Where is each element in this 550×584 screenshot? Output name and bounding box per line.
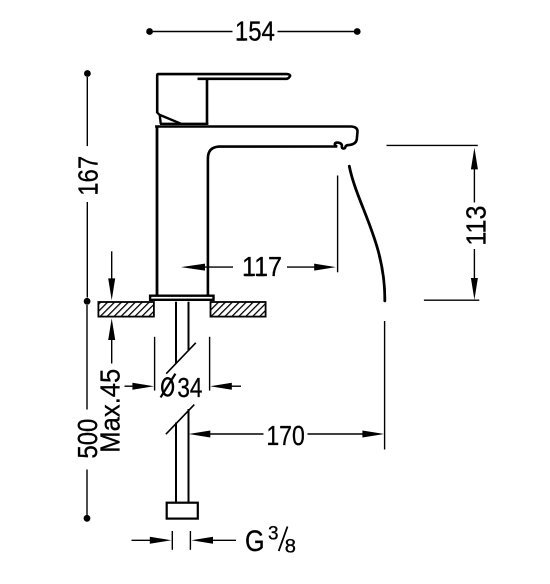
svg-text:170: 170	[266, 420, 305, 451]
label O34 diameter circle	[162, 378, 173, 395]
label 113 foot serifs of digits 1 (rotated)	[484, 222, 486, 230]
faucet body left edge	[156, 126, 159, 295]
dim O34 right arrow (left-pointing)	[210, 383, 232, 390]
label 170 foot serif of digit 1	[269, 443, 277, 445]
dim 117 left arrow (left-pointing at body axis)	[181, 264, 205, 271]
node dim154 dot-left	[146, 28, 153, 35]
dim Max.45 lower leader line	[111, 340, 113, 364]
dim G38 left leader	[132, 539, 151, 541]
dim 117 right arrow (right-pointing)	[314, 264, 336, 271]
label 167 foot serif of digit 1 (rotated)	[96, 184, 98, 192]
supply pipe right edge	[188, 302, 190, 502]
node dim167-500 dot-middle	[84, 298, 91, 305]
wire dim154 line-left	[153, 31, 233, 33]
svg-text:G: G	[245, 526, 265, 558]
dim 113 bottom arrow (down)	[471, 278, 478, 300]
node dim167 dot-top	[84, 70, 91, 77]
dim 170 line right	[308, 433, 363, 435]
faucet spout outline	[155, 127, 357, 295]
dim 117 line left	[204, 266, 233, 268]
dim Max.45 lower arrow (up)	[108, 318, 115, 340]
wire dim167 line-top	[86, 77, 88, 146]
faucet handle chamfer wedge	[157, 113, 181, 124]
dim O34 extension line right	[209, 337, 211, 391]
pipe break slash lower	[166, 405, 194, 435]
svg-text:154: 154	[235, 16, 275, 47]
label 154 foot serif of digit 1	[238, 39, 246, 41]
label O34 diameter slash	[161, 374, 176, 398]
faucet base flange	[150, 296, 213, 300]
svg-text:3: 3	[268, 524, 279, 545]
countertop left section	[98, 302, 153, 317]
wire dim167 line-bottom	[86, 202, 88, 298]
dim 113 line upper	[473, 169, 475, 203]
dim 170 right arrow (right-pointing)	[362, 431, 384, 438]
dim Max.45 upper arrow (down)	[108, 278, 115, 300]
dim 113 bottom reference line	[424, 299, 479, 301]
dim 117 extension line below spout	[337, 176, 339, 273]
svg-text:167: 167	[73, 156, 104, 196]
node dim500 dot-bottom	[84, 515, 91, 522]
dim 170 line left	[210, 433, 264, 435]
dim O34 left arrow (right-pointing)	[132, 383, 154, 390]
dim 113 top arrow (up)	[471, 148, 478, 170]
countertop right section	[211, 302, 266, 317]
dim O34 extension line left	[154, 337, 156, 391]
svg-text:113: 113	[460, 206, 491, 246]
dim Max.45 upper leader line	[111, 251, 113, 279]
supply pipe left edge	[175, 302, 177, 502]
dim O34 right leader	[232, 385, 242, 387]
dim G38 tick left	[171, 531, 173, 550]
wire dim500 line-top	[86, 305, 88, 410]
svg-text:34: 34	[177, 372, 202, 403]
wire dim500 line-bottom	[86, 470, 88, 516]
dim G38 left arrow (right-pointing)	[150, 537, 172, 544]
dim O34 left leader	[125, 385, 135, 387]
label 117 foot serifs of digits 1	[245, 274, 253, 276]
dim 113 top reference line	[387, 144, 478, 146]
svg-text:Max.45: Max.45	[94, 369, 125, 453]
dim 170 extension line below stream	[384, 321, 386, 450]
svg-text:8: 8	[285, 536, 296, 558]
faucet handle lever	[157, 74, 290, 113]
faucet handle neck right edge	[206, 79, 209, 125]
svg-text:117: 117	[242, 251, 282, 282]
fraction slash	[279, 527, 288, 552]
faucet handle bottom contact line	[160, 123, 208, 125]
dim G38 right arrow (left-pointing)	[191, 537, 213, 544]
dim 170 left arrow (left-pointing at pipe)	[189, 431, 211, 438]
threaded connector end	[167, 503, 198, 519]
dim G38 right leader	[213, 539, 237, 541]
wire dim154 line-right	[278, 31, 355, 33]
dim 113 line lower	[473, 249, 475, 279]
dim G38 tick right	[189, 531, 191, 550]
node dim154 dot-right	[354, 28, 361, 35]
dim 117 line right	[287, 266, 315, 268]
water stream curve	[349, 166, 385, 301]
pipe break slash upper	[166, 343, 196, 374]
